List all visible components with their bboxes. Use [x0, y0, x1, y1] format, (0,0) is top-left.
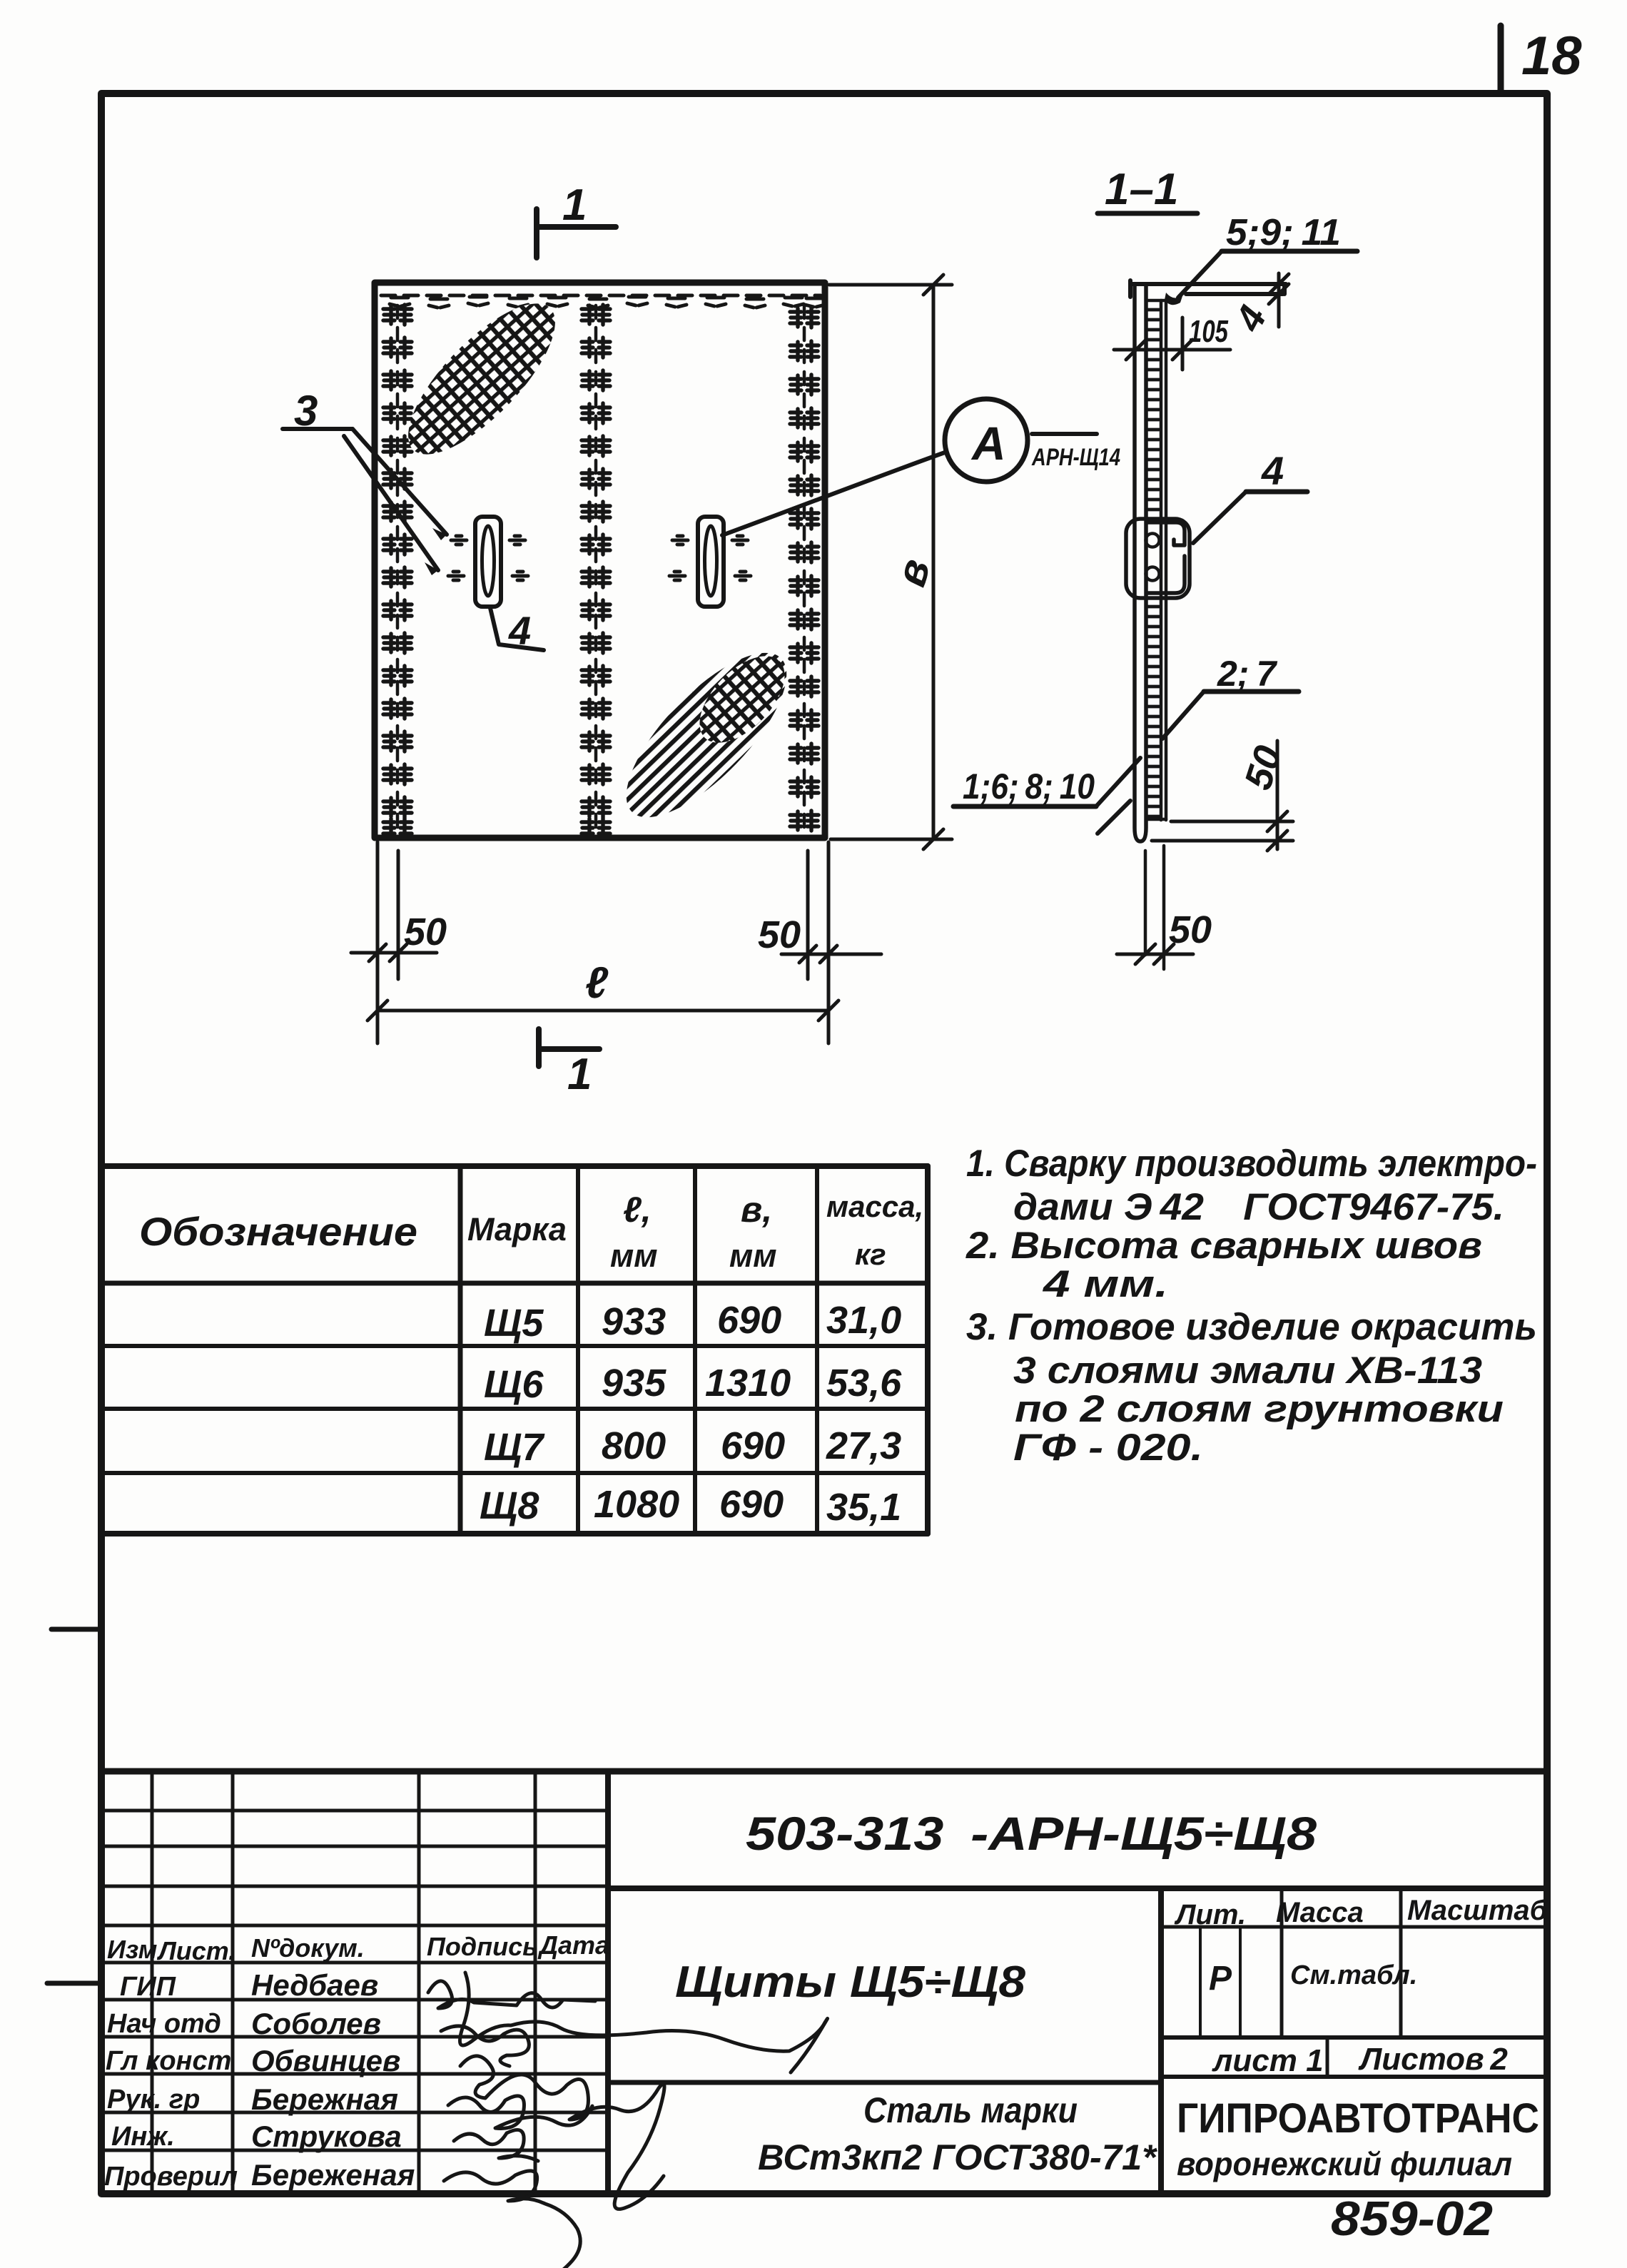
svg-text:ВСт3кп2 ГОСТ380-71*: ВСт3кп2 ГОСТ380-71*: [758, 2137, 1158, 2177]
leader 4 (front view): [490, 608, 544, 650]
svg-text:Нач отд: Нач отд: [107, 2009, 221, 2039]
svg-text:2; 7: 2; 7: [1217, 654, 1277, 694]
table grid: [101, 1166, 928, 1534]
section mark 1 (top): [537, 209, 616, 258]
dimension 50 (bottom right): [781, 842, 881, 1043]
title block grid: [101, 1771, 1547, 2194]
svg-text:50: 50: [1169, 908, 1212, 951]
svg-text:Недбаев: Недбаев: [251, 1968, 378, 2002]
dimension 50 (bottom left): [351, 842, 437, 1043]
svg-text:690: 690: [719, 1483, 784, 1526]
svg-text:4 мм.: 4 мм.: [1043, 1263, 1168, 1305]
svg-text:105: 105: [1189, 314, 1228, 349]
panel outline: [375, 283, 825, 838]
fixture plate right (pos 4): [698, 517, 724, 607]
svg-text:800: 800: [602, 1424, 666, 1467]
leader to detail A: [722, 452, 945, 535]
svg-text:кг: кг: [855, 1237, 886, 1271]
svg-text:Дата: Дата: [537, 1930, 609, 1960]
section mark 1 (bottom): [539, 1029, 599, 1066]
svg-text:мм: мм: [729, 1237, 777, 1274]
svg-text:35,1: 35,1: [826, 1486, 901, 1529]
svg-text:ГИПРОАВТОТРАНС: ГИПРОАВТОТРАНС: [1177, 2095, 1539, 2142]
svg-text:5;9; 11: 5;9; 11: [1226, 212, 1341, 253]
svg-text:50: 50: [1237, 741, 1291, 795]
svg-text:лист 1: лист 1: [1212, 2043, 1324, 2078]
svg-text:Гл конст: Гл конст: [106, 2046, 231, 2076]
svg-text:Лист.: Лист.: [156, 1936, 235, 1965]
svg-text:690: 690: [717, 1299, 781, 1342]
middle batten dashed line + weld symbols: [594, 305, 598, 834]
svg-text:Береженая: Береженая: [251, 2158, 415, 2192]
weld spot under flange: [1165, 293, 1183, 305]
weld zone blob 2 (hatched): [602, 629, 811, 841]
svg-text:в,: в,: [741, 1190, 772, 1230]
svg-text:1. Сварку производить электр: 1. Сварку производить электро-: [966, 1143, 1537, 1185]
welded bar with seam teeth (section): [1146, 300, 1166, 820]
svg-text:Изм: Изм: [107, 1935, 157, 1964]
svg-text:в: в: [886, 554, 939, 591]
left batten dashed line + weld symbols: [396, 305, 400, 834]
weld seam teeth: [1147, 310, 1159, 816]
svg-text:Щиты Щ5÷Щ8: Щиты Щ5÷Щ8: [675, 1958, 1026, 2007]
svg-text:A: A: [970, 417, 1006, 470]
dimension 105: [1114, 318, 1230, 370]
clamp bracket (pos 4, section): [1126, 519, 1190, 598]
svg-text:Щ6: Щ6: [484, 1363, 544, 1406]
svg-text:18: 18: [1521, 26, 1582, 86]
right batten dashed line + weld symbols: [803, 305, 806, 834]
svg-text:Р: Р: [1209, 1960, 1232, 1998]
svg-text:27,3: 27,3: [826, 1424, 901, 1467]
svg-text:ℓ: ℓ: [585, 958, 609, 1008]
top edge weld ticks: [390, 297, 825, 308]
top flange (section): [1130, 280, 1286, 297]
svg-text:Рук. гр: Рук. гр: [107, 2085, 200, 2115]
svg-text:4: 4: [508, 608, 531, 653]
svg-text:Масштаб: Масштаб: [1407, 1895, 1549, 1926]
fixture plate left (pos 4): [475, 517, 501, 607]
frame fold mark lower: [47, 1981, 100, 1986]
svg-text:Инж.: Инж.: [111, 2122, 175, 2152]
svg-text:1–1: 1–1: [1105, 165, 1178, 214]
svg-text:воронежский филиал: воронежский филиал: [1177, 2145, 1512, 2182]
detail A label АРН-Щ14: [1032, 432, 1097, 436]
panel board (section): [1135, 284, 1146, 841]
svg-text:1;6; 8; 10: 1;6; 8; 10: [963, 766, 1095, 806]
svg-text:50: 50: [404, 911, 447, 953]
svg-text:1080: 1080: [594, 1483, 679, 1526]
svg-text:Подпись: Подпись: [427, 1932, 538, 1961]
svg-text:690: 690: [721, 1424, 785, 1467]
svg-text:53,6: 53,6: [826, 1362, 902, 1404]
frame fold mark upper: [51, 1627, 100, 1632]
svg-text:503-313 -АРН-Щ5÷Щ8: 503-313 -АРН-Щ5÷Щ8: [746, 1807, 1317, 1860]
svg-text:935: 935: [602, 1362, 666, 1404]
svg-text:2. Высота сварных швов: 2. Высота сварных швов: [965, 1225, 1482, 1267]
svg-text:50: 50: [758, 913, 801, 956]
svg-text:Соболев: Соболев: [251, 2007, 381, 2040]
svg-text:Nºдокум.: Nºдокум.: [251, 1933, 365, 1963]
svg-text:Лит.: Лит.: [1174, 1899, 1246, 1930]
weld zone blob 1 (cross hatched): [387, 283, 577, 476]
svg-text:859-02: 859-02: [1331, 2192, 1493, 2246]
svg-text:ℓ,: ℓ,: [623, 1190, 652, 1230]
svg-text:933: 933: [602, 1300, 666, 1343]
signatures scrawl: [428, 1973, 828, 2268]
svg-text:АРН-Щ14: АРН-Щ14: [1031, 444, 1120, 471]
svg-text:ГИП: ГИП: [120, 1972, 176, 2002]
dimension l (bottom): [368, 1001, 838, 1021]
svg-text:Щ7: Щ7: [484, 1426, 545, 1469]
svg-text:Сталь марки: Сталь марки: [863, 2090, 1078, 2130]
svg-text:3. Готовое изделие окрасить: 3. Готовое изделие окрасить: [966, 1306, 1537, 1348]
svg-text:1310: 1310: [705, 1362, 791, 1404]
svg-text:Проверил: Проверил: [104, 2162, 238, 2192]
svg-text:по 2 слоям грунтовки: по 2 слоям грунтовки: [1015, 1388, 1504, 1430]
svg-text:дами Э 42 ГОСТ9467-75.: дами Э 42 ГОСТ9467-75.: [1013, 1186, 1504, 1228]
svg-text:мм: мм: [610, 1237, 658, 1274]
svg-text:Марка: Марка: [467, 1211, 567, 1247]
svg-text:масса,: масса,: [826, 1190, 923, 1223]
dimension 4 (flange thickness): [1269, 273, 1289, 327]
svg-text:Обвинцев: Обвинцев: [251, 2044, 400, 2077]
svg-text:Щ5: Щ5: [484, 1302, 544, 1345]
svg-text:Обозначение: Обозначение: [139, 1209, 417, 1254]
extension lines below section: [1144, 851, 1147, 955]
svg-text:ГФ - 020.: ГФ - 020.: [1013, 1427, 1203, 1469]
svg-text:3 слоями эмали ХВ-113: 3 слоями эмали ХВ-113: [1013, 1350, 1482, 1392]
svg-text:Масса: Масса: [1276, 1897, 1364, 1928]
svg-text:Бережная: Бережная: [251, 2082, 398, 2116]
svg-text:Листов 2: Листов 2: [1358, 2042, 1508, 2077]
top batten dashed line: [381, 294, 821, 298]
dimension в (right of panel): [829, 275, 952, 849]
svg-text:Щ8: Щ8: [480, 1484, 539, 1527]
svg-text:Струкова: Струкова: [251, 2120, 402, 2153]
svg-text:См.табл.: См.табл.: [1290, 1960, 1417, 1990]
sheet number tick: [1498, 26, 1504, 91]
svg-text:4: 4: [1261, 448, 1284, 493]
right part: lit/massa/scale: [1161, 1888, 1547, 2077]
svg-text:1: 1: [562, 181, 587, 230]
svg-text:31,0: 31,0: [826, 1299, 901, 1342]
dimension 50 (horizontal, below section): [1117, 944, 1193, 964]
detail circle A: [945, 399, 1028, 482]
dimension 50 (vertical, section bottom): [1152, 741, 1293, 851]
svg-text:1: 1: [567, 1050, 592, 1099]
